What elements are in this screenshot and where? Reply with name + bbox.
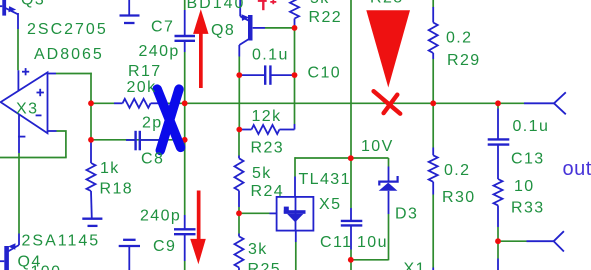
wire main net left segment [91,102,114,104]
wire C13 top stub [497,103,499,108]
node dot out2 [495,238,501,244]
svg-text:10: 10 [514,178,535,195]
resistor R30 [429,148,438,195]
svg-text:2SC2705: 2SC2705 [27,21,108,38]
svg-text:out: out [563,158,591,180]
wire Q8 collector to C10 [238,57,240,76]
ground inverted bottom center [119,240,140,270]
capacitor C11 [341,208,363,250]
power flag T+ [258,0,277,10]
svg-text:C11: C11 [320,234,352,251]
wire D3 top stub [388,158,390,167]
svg-text:R30: R30 [442,189,476,206]
transistor Q3 [0,0,18,29]
resistor R22 [290,0,299,26]
wire ref row to TL431 [239,212,270,214]
transistor Q8 [239,0,265,57]
svg-text:Q8: Q8 [211,22,235,39]
zener diode D3 [379,167,398,215]
svg-text:C8: C8 [141,151,164,168]
resistor R25 [235,234,244,270]
capacitor C9 [174,215,196,261]
wire opamp -in loop [57,131,66,158]
node dot TL431 ref [236,210,242,216]
resistor R17 [114,99,161,108]
svg-text:R23: R23 [251,140,285,157]
wire R33 bottom [497,227,499,241]
wire D3 bottom row [351,259,389,261]
wire left row y157.5 [0,157,67,159]
svg-text:C7: C7 [151,18,174,35]
svg-text:R18: R18 [100,181,134,198]
svg-text:TL431: TL431 [299,171,351,188]
resistor R23 12k [239,124,295,134]
wire C7 top stub [184,0,186,10]
svg-text:5k: 5k [252,165,272,182]
resistor R33 [494,179,503,227]
svg-text:C9: C9 [153,238,176,255]
svg-text:Q3: Q3 [21,0,45,8]
ground top (C7 column left) [120,0,140,23]
wire TL431 top pin [294,157,296,176]
connector out1 [524,92,566,114]
svg-text:0.2: 0.2 [444,162,470,179]
wire out2 row [498,240,527,242]
svg-text:R29: R29 [447,52,481,69]
wire R29 top stub [432,0,434,8]
op-amp U1 X3 triangle [1,68,57,153]
wire R30 bottom [432,195,434,268]
wire Q8 base [265,27,295,29]
wire C9 bottom stub [184,261,186,270]
node dot C10 right [292,72,298,78]
svg-text:100: 100 [31,264,62,270]
wire R24 bottom to ref dot [238,207,240,214]
node dot C8 left [88,137,94,143]
svg-text:2SA1145: 2SA1145 [22,233,101,250]
svg-text:0.1u: 0.1u [513,118,550,135]
svg-text:X5: X5 [319,196,341,213]
wire ref dot to R25 [238,213,240,234]
wire V+ column [17,29,19,71]
svg-text:0.2: 0.2 [446,29,472,46]
svg-text:3k: 3k [248,241,268,258]
svg-text:D3: D3 [395,206,418,223]
wire zener column x351 [350,0,352,208]
resistor R18 [87,141,96,219]
resistor R29 [429,7,438,59]
TL431 X5 box [270,177,314,243]
svg-text:20k: 20k [127,79,157,96]
svg-text:R28: R28 [370,0,404,7]
wire below out2 junction [497,241,499,258]
node dot Q8 base [292,25,298,31]
node dot main x185 [182,100,188,106]
svg-text:12k: 12k [252,108,282,125]
red X mark [374,91,401,114]
svg-text:X1: X1 [404,261,426,270]
red triangle probe [366,10,410,87]
node dot main x498 [495,100,501,106]
node dot 10V row [348,155,354,161]
svg-text:R25: R25 [248,261,282,270]
red arrow down [190,191,206,265]
wire R24 top [238,130,240,156]
svg-text:10u: 10u [357,234,388,251]
wire opamp +in [56,73,92,75]
node dot 12k left [236,127,242,133]
svg-text:1k: 1k [100,160,120,177]
capacitor C8 [126,131,161,151]
capacitor C7 [175,10,196,52]
wire C10 right to 12k bend [294,75,296,124]
svg-text:0.1u: 0.1u [252,46,289,63]
wire R22 to C10 right [294,26,296,76]
transistor Q4 [0,234,19,270]
wire TL431 bottom pin [295,242,297,270]
svg-text:2p: 2p [142,114,163,131]
svg-text:240p: 240p [140,208,181,225]
wire node A vertical x91 [90,73,92,140]
svg-text:R17: R17 [128,63,162,80]
wire C8 row [91,139,185,141]
svg-text:X3: X3 [16,101,38,118]
wire below out2 blue tip [497,259,499,270]
wire C7-C9 column [184,52,186,215]
connector out2 [527,231,564,251]
wire main net right segment [161,102,524,104]
svg-text:R33: R33 [511,199,545,216]
wire row y158 TL431 to D3 [295,157,389,159]
svg-text:C13: C13 [511,151,545,168]
node dot C10 left [236,72,242,78]
ground below R18 [82,219,102,226]
svg-text:BD140: BD140 [187,0,246,12]
wire C11 bottom [350,250,352,270]
svg-text:R22: R22 [309,9,343,26]
wire C10 to 12k dot [238,75,240,129]
svg-text:R24: R24 [251,183,285,200]
svg-text:AD8065: AD8065 [34,46,104,63]
svg-text:C10: C10 [308,64,342,81]
node dot C8 right [182,137,188,143]
capacitor C10 [239,65,294,84]
wire bottom blue tip x433 [432,268,434,270]
svg-text:5k: 5k [310,0,330,7]
node dot C11 bottom [348,257,354,263]
red arrow up [193,9,208,88]
node dot main/R17 left [88,100,94,106]
resistor R24 [235,156,244,208]
wire R29-R30 column middle [432,59,434,148]
blue X mark [157,89,180,150]
svg-text:240p: 240p [139,43,180,60]
svg-text:10V: 10V [361,138,394,155]
capacitor C13 [488,109,510,180]
wire V- column [18,153,20,234]
wire D3 bottom stub [388,214,390,260]
node dot main x433 [430,100,436,106]
